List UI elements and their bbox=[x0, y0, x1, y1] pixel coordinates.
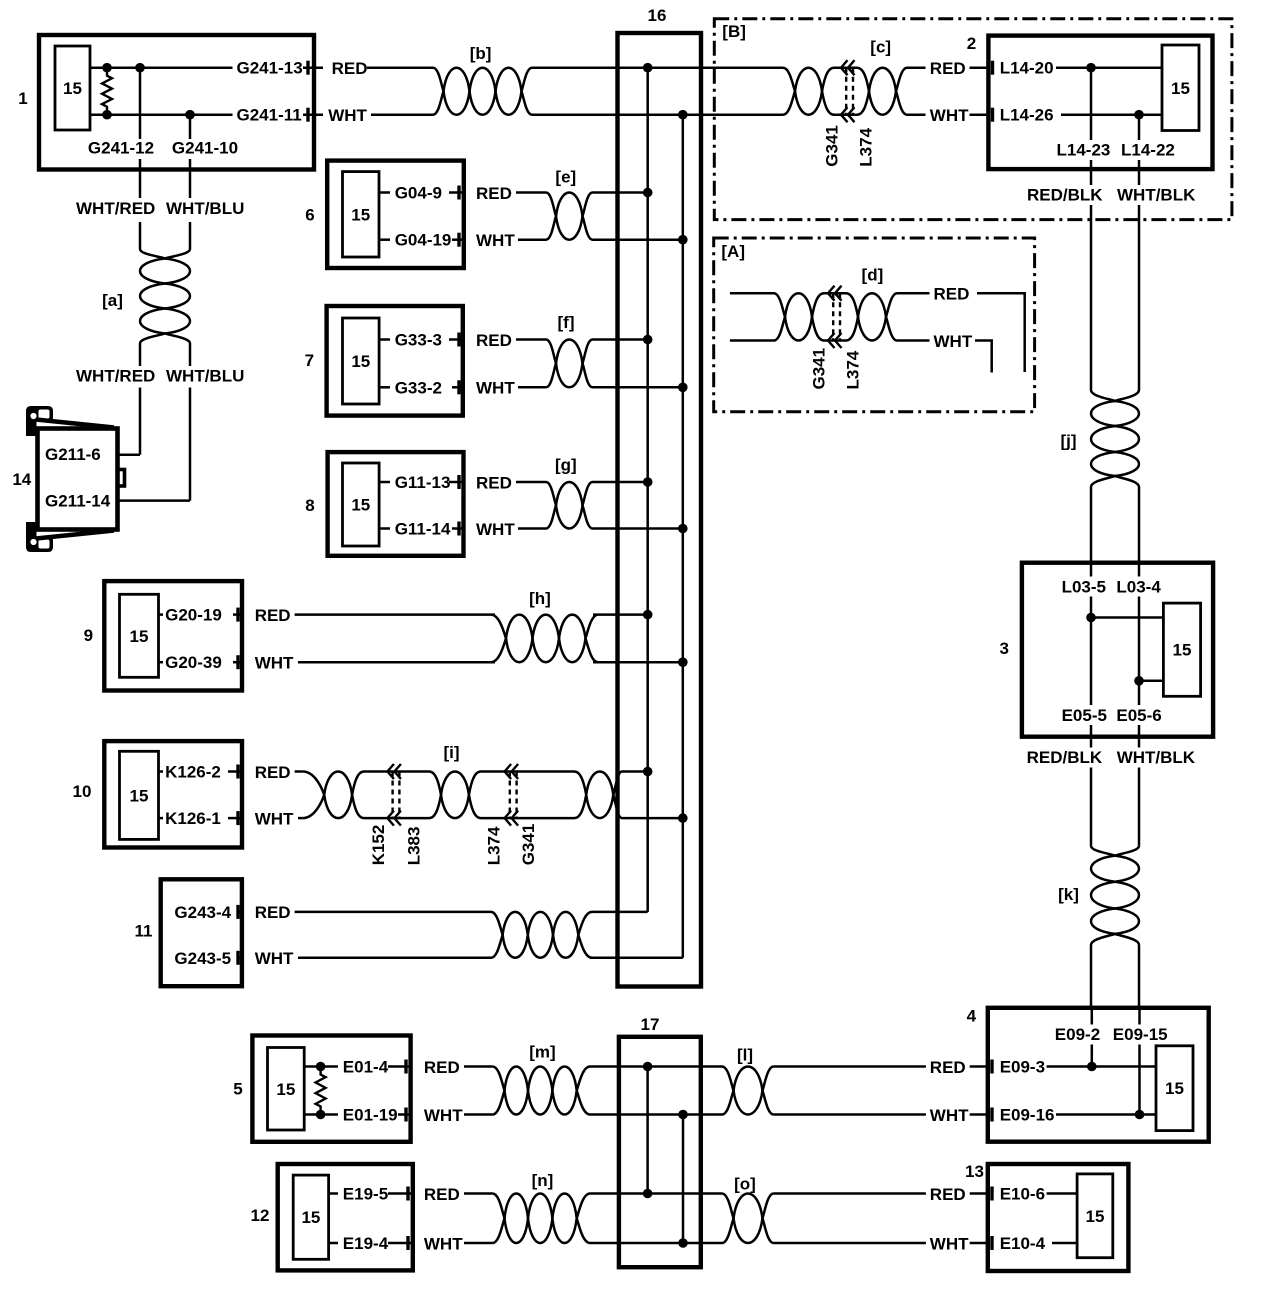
svg-text:WHT/RED: WHT/RED bbox=[76, 199, 155, 218]
svg-text:E19-4: E19-4 bbox=[343, 1234, 389, 1253]
svg-text:E09-3: E09-3 bbox=[1000, 1058, 1045, 1077]
svg-text:6: 6 bbox=[305, 206, 314, 225]
svg-text:WHT: WHT bbox=[476, 520, 515, 539]
svg-text:G11-13: G11-13 bbox=[395, 473, 451, 492]
svg-text:L374: L374 bbox=[844, 350, 863, 389]
svg-text:15: 15 bbox=[1173, 641, 1192, 660]
svg-text:17: 17 bbox=[641, 1015, 660, 1034]
svg-text:WHT: WHT bbox=[424, 1234, 463, 1253]
svg-text:[j]: [j] bbox=[1060, 432, 1076, 451]
svg-text:10: 10 bbox=[73, 782, 92, 801]
svg-text:E19-5: E19-5 bbox=[343, 1185, 388, 1204]
svg-text:[g]: [g] bbox=[555, 456, 577, 475]
svg-text:E01-4: E01-4 bbox=[343, 1058, 389, 1077]
svg-text:15: 15 bbox=[1171, 79, 1190, 98]
svg-text:12: 12 bbox=[251, 1206, 270, 1225]
svg-text:4: 4 bbox=[967, 1007, 977, 1026]
svg-text:L14-20: L14-20 bbox=[1000, 59, 1054, 78]
svg-text:WHT/BLU: WHT/BLU bbox=[166, 199, 244, 218]
svg-text:RED: RED bbox=[930, 1058, 966, 1077]
svg-text:E01-19: E01-19 bbox=[343, 1106, 398, 1125]
svg-text:G211-6: G211-6 bbox=[45, 445, 101, 464]
svg-text:G33-2: G33-2 bbox=[395, 378, 442, 397]
svg-text:G20-19: G20-19 bbox=[165, 606, 222, 625]
svg-text:L374: L374 bbox=[485, 826, 504, 865]
svg-text:15: 15 bbox=[351, 496, 370, 515]
svg-text:G211-14: G211-14 bbox=[45, 492, 111, 511]
svg-text:E10-4: E10-4 bbox=[1000, 1234, 1046, 1253]
svg-text:15: 15 bbox=[63, 79, 82, 98]
svg-text:15: 15 bbox=[1165, 1079, 1184, 1098]
svg-text:L14-22: L14-22 bbox=[1121, 141, 1175, 160]
svg-text:[o]: [o] bbox=[734, 1175, 756, 1194]
svg-text:WHT: WHT bbox=[930, 1106, 969, 1125]
svg-text:WHT: WHT bbox=[934, 332, 973, 351]
svg-text:WHT: WHT bbox=[255, 809, 294, 828]
svg-text:RED: RED bbox=[255, 606, 291, 625]
svg-text:WHT: WHT bbox=[424, 1106, 463, 1125]
svg-text:[f]: [f] bbox=[558, 313, 575, 332]
svg-text:K126-1: K126-1 bbox=[165, 809, 221, 828]
svg-text:L383: L383 bbox=[405, 827, 424, 866]
svg-text:G241-13: G241-13 bbox=[237, 59, 303, 78]
svg-text:15: 15 bbox=[351, 352, 370, 371]
svg-text:G243-4: G243-4 bbox=[174, 903, 231, 922]
svg-text:[i]: [i] bbox=[443, 743, 459, 762]
svg-text:[c]: [c] bbox=[870, 38, 891, 57]
svg-text:G04-19: G04-19 bbox=[395, 231, 452, 250]
svg-text:[a]: [a] bbox=[102, 291, 123, 310]
svg-text:15: 15 bbox=[130, 627, 149, 646]
svg-text:[e]: [e] bbox=[555, 168, 576, 187]
svg-text:15: 15 bbox=[301, 1208, 320, 1227]
svg-text:L374: L374 bbox=[856, 127, 875, 166]
svg-text:[A]: [A] bbox=[721, 242, 745, 261]
svg-text:L03-4: L03-4 bbox=[1116, 578, 1161, 597]
svg-text:[h]: [h] bbox=[529, 589, 551, 608]
svg-text:RED: RED bbox=[476, 331, 512, 350]
svg-text:[k]: [k] bbox=[1058, 885, 1079, 904]
svg-text:WHT/RED: WHT/RED bbox=[76, 367, 155, 386]
svg-text:G241-10: G241-10 bbox=[172, 139, 238, 158]
svg-text:15: 15 bbox=[276, 1080, 295, 1099]
svg-text:G241-11: G241-11 bbox=[237, 106, 302, 125]
svg-text:[m]: [m] bbox=[529, 1043, 555, 1062]
svg-text:WHT: WHT bbox=[255, 949, 294, 968]
svg-text:E09-16: E09-16 bbox=[1000, 1106, 1055, 1125]
svg-text:G11-14: G11-14 bbox=[395, 520, 451, 539]
svg-text:G243-5: G243-5 bbox=[174, 949, 231, 968]
svg-text:G341: G341 bbox=[823, 125, 842, 167]
svg-text:RED: RED bbox=[424, 1185, 460, 1204]
svg-text:16: 16 bbox=[648, 6, 667, 25]
svg-text:WHT: WHT bbox=[328, 106, 367, 125]
svg-text:RED: RED bbox=[255, 763, 291, 782]
svg-text:15: 15 bbox=[1085, 1207, 1104, 1226]
svg-text:E10-6: E10-6 bbox=[1000, 1185, 1045, 1204]
svg-text:5: 5 bbox=[233, 1080, 242, 1099]
svg-text:RED: RED bbox=[476, 473, 512, 492]
svg-text:2: 2 bbox=[967, 34, 976, 53]
svg-text:3: 3 bbox=[999, 639, 1008, 658]
svg-text:1: 1 bbox=[18, 89, 27, 108]
svg-text:WHT/BLK: WHT/BLK bbox=[1117, 748, 1196, 767]
svg-text:WHT: WHT bbox=[255, 654, 294, 673]
svg-text:WHT: WHT bbox=[930, 106, 969, 125]
svg-text:E05-6: E05-6 bbox=[1116, 706, 1161, 725]
svg-text:7: 7 bbox=[305, 351, 314, 370]
svg-text:11: 11 bbox=[135, 922, 153, 941]
svg-text:RED: RED bbox=[424, 1058, 460, 1077]
svg-text:RED: RED bbox=[332, 59, 368, 78]
svg-text:13: 13 bbox=[965, 1162, 984, 1181]
svg-text:9: 9 bbox=[84, 626, 93, 645]
svg-text:WHT/BLU: WHT/BLU bbox=[166, 367, 244, 386]
svg-text:L14-23: L14-23 bbox=[1057, 141, 1111, 160]
svg-text:G20-39: G20-39 bbox=[165, 653, 222, 672]
svg-text:WHT/BLK: WHT/BLK bbox=[1117, 186, 1196, 205]
svg-text:L14-26: L14-26 bbox=[1000, 106, 1054, 125]
svg-text:RED: RED bbox=[930, 59, 966, 78]
svg-text:K126-2: K126-2 bbox=[165, 763, 221, 782]
svg-text:[B]: [B] bbox=[722, 22, 746, 41]
svg-text:RED: RED bbox=[934, 285, 970, 304]
svg-text:G241-12: G241-12 bbox=[88, 139, 154, 158]
svg-text:WHT: WHT bbox=[476, 379, 515, 398]
svg-text:[d]: [d] bbox=[862, 266, 884, 285]
svg-text:[b]: [b] bbox=[470, 44, 492, 63]
svg-text:RED: RED bbox=[930, 1185, 966, 1204]
svg-text:RED/BLK: RED/BLK bbox=[1027, 748, 1103, 767]
svg-text:RED: RED bbox=[255, 903, 291, 922]
svg-text:WHT: WHT bbox=[476, 231, 515, 250]
svg-text:L03-5: L03-5 bbox=[1062, 578, 1106, 597]
svg-text:E05-5: E05-5 bbox=[1062, 706, 1107, 725]
svg-text:RED: RED bbox=[476, 184, 512, 203]
svg-text:K152: K152 bbox=[369, 825, 388, 866]
svg-text:G341: G341 bbox=[810, 348, 829, 390]
svg-text:G341: G341 bbox=[519, 824, 538, 866]
svg-text:G33-3: G33-3 bbox=[395, 331, 442, 350]
svg-text:[l]: [l] bbox=[737, 1046, 753, 1065]
svg-text:[n]: [n] bbox=[532, 1171, 554, 1190]
svg-text:G04-9: G04-9 bbox=[395, 184, 442, 203]
svg-text:15: 15 bbox=[130, 786, 149, 805]
svg-text:E09-15: E09-15 bbox=[1113, 1025, 1168, 1044]
svg-text:14: 14 bbox=[12, 470, 31, 489]
svg-text:WHT: WHT bbox=[930, 1234, 969, 1253]
svg-text:E09-2: E09-2 bbox=[1055, 1025, 1100, 1044]
svg-text:15: 15 bbox=[351, 205, 370, 224]
svg-text:8: 8 bbox=[305, 496, 314, 515]
svg-text:RED/BLK: RED/BLK bbox=[1027, 186, 1103, 205]
